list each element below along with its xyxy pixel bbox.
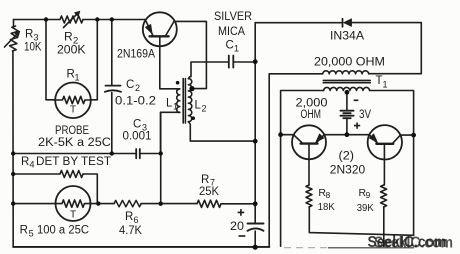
svg-text:2N320: 2N320: [330, 163, 366, 177]
svg-text:R: R: [64, 30, 73, 44]
svg-text:25K: 25K: [199, 186, 219, 198]
svg-text:SILVER: SILVER: [214, 11, 252, 23]
svg-text:R: R: [201, 174, 209, 186]
svg-text:20: 20: [230, 221, 244, 233]
svg-text:R: R: [25, 29, 33, 41]
svg-text:1: 1: [383, 80, 388, 90]
svg-text:L: L: [195, 100, 202, 112]
svg-text:1: 1: [75, 73, 80, 83]
svg-text:18K: 18K: [318, 201, 335, 213]
svg-text:0.1-0.2: 0.1-0.2: [115, 96, 156, 108]
svg-text:100 a 25C: 100 a 25C: [37, 225, 89, 237]
svg-text:39K: 39K: [357, 202, 374, 214]
svg-text:T: T: [70, 210, 76, 221]
svg-text:9: 9: [366, 190, 371, 200]
svg-text:6: 6: [134, 215, 139, 225]
svg-text:T: T: [70, 105, 76, 116]
svg-text:0.001: 0.001: [123, 131, 152, 143]
svg-text:MICA: MICA: [218, 26, 245, 38]
svg-text:3V: 3V: [359, 109, 371, 121]
svg-text:R: R: [20, 225, 28, 237]
svg-text:DET BY TEST: DET BY TEST: [36, 156, 111, 168]
svg-text:C: C: [226, 40, 234, 52]
svg-text:C: C: [126, 79, 134, 91]
svg-text:20,000 OHM: 20,000 OHM: [314, 55, 385, 69]
svg-text:1: 1: [234, 44, 239, 54]
svg-text:4: 4: [30, 160, 35, 170]
svg-text:(2): (2): [339, 151, 355, 163]
svg-text:5: 5: [29, 229, 34, 239]
svg-text:8: 8: [326, 190, 331, 200]
svg-text:4.7K: 4.7K: [119, 225, 142, 237]
svg-text:SeekIC.com: SeekIC.com: [368, 234, 447, 251]
svg-text:L: L: [166, 98, 173, 110]
svg-text:R: R: [21, 156, 29, 168]
svg-text:2: 2: [202, 104, 207, 114]
svg-text:10K: 10K: [24, 42, 42, 54]
svg-text:200K: 200K: [57, 43, 86, 57]
svg-text:2: 2: [135, 83, 140, 93]
svg-text:1: 1: [173, 102, 178, 112]
svg-text:T: T: [376, 75, 383, 87]
svg-text:2,000: 2,000: [296, 96, 328, 110]
svg-text:2N169A: 2N169A: [117, 49, 155, 61]
svg-text:C: C: [133, 119, 141, 131]
svg-text:R: R: [125, 211, 133, 223]
svg-text:2K-5K a 25C: 2K-5K a 25C: [38, 137, 111, 149]
svg-text:IN34A: IN34A: [330, 30, 364, 42]
svg-text:OHM: OHM: [301, 109, 322, 121]
svg-text:PROBE: PROBE: [55, 125, 89, 137]
